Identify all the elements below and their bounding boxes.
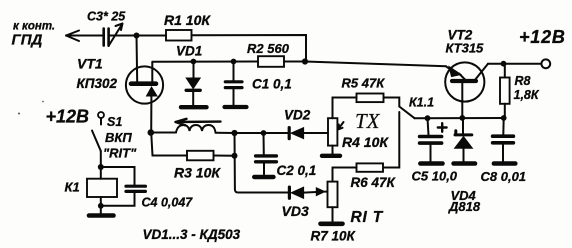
scan speck bbox=[18, 113, 20, 115]
wire: C2 node to VD2 bbox=[264, 132, 290, 134]
svg-text:КТ315: КТ315 bbox=[446, 41, 485, 56]
junction dot coil right bbox=[231, 130, 237, 136]
relay contact K1.1 bbox=[384, 98, 400, 107]
svg-text:S1: S1 bbox=[107, 115, 122, 129]
diode VD1 bbox=[186, 62, 200, 106]
wire: gate of VT1 bbox=[136, 36, 139, 83]
svg-text:КП302: КП302 bbox=[77, 76, 118, 91]
resistor R1 bbox=[166, 30, 192, 41]
capacitor C1 bbox=[225, 62, 242, 106]
svg-text:R7 10К: R7 10К bbox=[311, 229, 357, 244]
svg-text:С8 0,01: С8 0,01 bbox=[481, 169, 527, 184]
svg-text:VT1: VT1 bbox=[77, 56, 103, 72]
wire: VD2 feed from mid rail bbox=[304, 132, 328, 134]
junction dot C1 top bbox=[231, 59, 237, 65]
junction dot C4 bottom node bbox=[98, 203, 104, 209]
wire: riser to VD3 bbox=[235, 133, 290, 193]
junction dot C5 top bbox=[425, 115, 431, 121]
svg-text:С3* 25: С3* 25 bbox=[87, 10, 126, 24]
wire: collector to +12V bbox=[488, 63, 541, 65]
arrowhead output bbox=[66, 31, 79, 42]
svg-text:+12В: +12В bbox=[519, 27, 566, 47]
svg-text:ГПД: ГПД bbox=[12, 31, 43, 48]
ground below C8 bbox=[494, 161, 515, 166]
svg-text:VD1: VD1 bbox=[176, 44, 202, 59]
capacitor C8 bbox=[493, 118, 514, 162]
R4 trimmer arrow bbox=[338, 122, 344, 130]
wire: R1 to bend bbox=[192, 35, 307, 62]
svg-text:VD1...3 - КД503: VD1...3 - КД503 bbox=[143, 227, 241, 242]
svg-text:Д818: Д818 bbox=[448, 199, 481, 214]
C5 polarity plus bbox=[438, 123, 447, 132]
svg-text:+12В: +12В bbox=[46, 107, 90, 127]
inductor slug arrow bbox=[176, 119, 221, 125]
svg-text:R5 47К: R5 47К bbox=[342, 76, 386, 91]
capacitor C5 bbox=[420, 118, 442, 161]
svg-text:"RIT": "RIT" bbox=[103, 146, 137, 161]
svg-text:С4 0,047: С4 0,047 bbox=[142, 196, 194, 210]
svg-text:R1 10К: R1 10К bbox=[164, 12, 211, 28]
ground below C5 bbox=[420, 161, 442, 166]
svg-text:ВКП: ВКП bbox=[105, 130, 132, 145]
svg-text:R2 560: R2 560 bbox=[247, 41, 290, 56]
resistor R5 bbox=[357, 94, 384, 103]
ground below R7 bbox=[321, 222, 343, 227]
svg-text:VD3: VD3 bbox=[282, 203, 309, 219]
ground below VD4 bbox=[454, 161, 475, 166]
wire: emitter rail bbox=[415, 117, 505, 119]
switch S1 lever bbox=[92, 131, 101, 152]
svg-text:К1: К1 bbox=[65, 180, 80, 195]
wire: VD3 to R7 wiper bbox=[304, 191, 317, 194]
svg-text:VD2: VD2 bbox=[284, 108, 311, 123]
resistor R7 (pot) bbox=[332, 168, 334, 182]
relay coil K1 box bbox=[87, 179, 117, 197]
junction dot S1 bottom node bbox=[98, 164, 104, 170]
transistor VT2 bbox=[445, 62, 488, 117]
resistor R4 (trimmer) bbox=[328, 118, 337, 145]
ground below VD1 bbox=[181, 105, 207, 109]
resistor R2 bbox=[258, 56, 284, 67]
wire: output arrow to C3 bbox=[66, 35, 102, 37]
svg-text:RI Т: RI Т bbox=[351, 209, 384, 226]
wire: R6 right riser bbox=[384, 112, 400, 168]
capacitor C4 bbox=[101, 167, 146, 206]
junction dot R3 right bbox=[232, 153, 238, 159]
junction dot VD1 top bbox=[191, 59, 197, 65]
diode VD3 bbox=[289, 187, 303, 198]
junction dot R8 top bbox=[501, 61, 507, 67]
wire: drain rail (second wire) bbox=[152, 61, 258, 63]
node A junction dot bbox=[134, 33, 140, 39]
terminal +12V right bbox=[541, 59, 550, 68]
capacitor C3 trimmer plates bbox=[104, 29, 109, 46]
diode VD2 bbox=[289, 128, 303, 139]
svg-text:R4 10К: R4 10К bbox=[342, 134, 389, 150]
junction dot C2 top bbox=[261, 130, 267, 136]
capacitor C2 bbox=[256, 133, 277, 176]
junction dot VD4 top bbox=[459, 115, 465, 121]
switch S1 terminal bbox=[98, 112, 104, 118]
svg-text:R8: R8 bbox=[515, 74, 531, 88]
ground below K1 bbox=[89, 213, 114, 218]
resistor R3 bbox=[151, 133, 187, 156]
svg-text:ТХ: ТХ bbox=[355, 109, 381, 133]
R7 wiper arrowhead bbox=[316, 188, 325, 196]
inductor L1 bbox=[176, 125, 216, 133]
capacitor C3 trimmer arrow bbox=[109, 24, 123, 47]
wire: base feed to VT2 bbox=[305, 62, 446, 67]
node B junction dot (R2 right / top wire) bbox=[302, 58, 308, 64]
junction dot coil left bbox=[148, 129, 155, 136]
svg-text:R3 10К: R3 10К bbox=[174, 165, 221, 181]
wire: mid rail to C2/VD2 bbox=[235, 132, 264, 134]
svg-text:К1.1: К1.1 bbox=[409, 96, 434, 110]
svg-text:С2 0,1: С2 0,1 bbox=[277, 163, 317, 178]
ground below C1 bbox=[225, 105, 247, 109]
svg-text:R6 47К: R6 47К bbox=[351, 175, 397, 190]
scan speck bbox=[42, 101, 44, 103]
mid rail: source node to coil bbox=[151, 132, 176, 134]
svg-text:С5 10,0: С5 10,0 bbox=[412, 169, 458, 184]
transistor VT1 bbox=[126, 62, 163, 132]
wire: C3 to node A bbox=[110, 35, 166, 37]
svg-text:1,8К: 1,8К bbox=[514, 88, 540, 102]
junction dot R8 bottom / C8 top bbox=[501, 115, 507, 121]
zener VD4 bbox=[455, 118, 473, 162]
svg-text:С1 0,1: С1 0,1 bbox=[252, 77, 292, 92]
resistor R6 bbox=[357, 163, 384, 171]
ground below C2 bbox=[254, 175, 273, 179]
resistor R8 bbox=[504, 64, 506, 78]
ground below R4 bbox=[322, 154, 340, 158]
